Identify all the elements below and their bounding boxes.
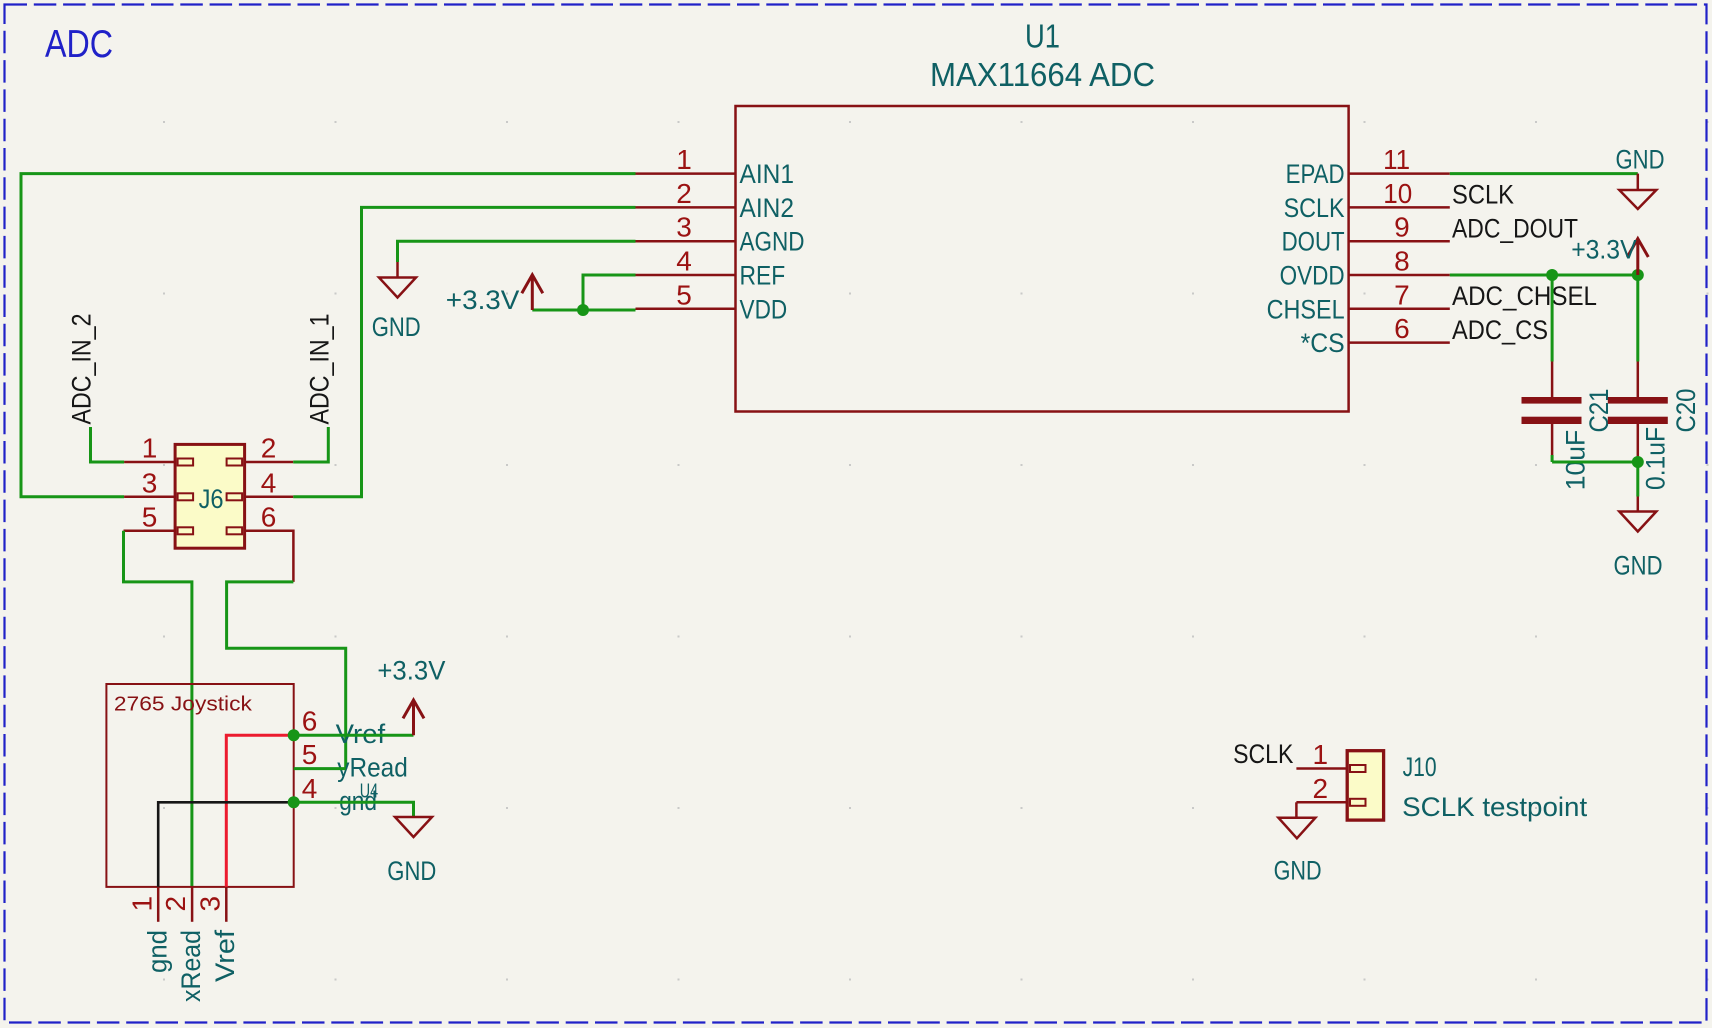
U1 pin 10 stub [1349, 206, 1450, 209]
wire net ADC_IN_2 : AIN1 to J6 pin 3 [21, 174, 636, 497]
svg-text:5: 5 [142, 501, 158, 532]
joystick pin 1 stub (bottom) [157, 887, 160, 922]
J6 pin 5 stub [124, 530, 176, 533]
svg-text:1: 1 [142, 433, 158, 464]
svg-text:10uF: 10uF [1561, 430, 1591, 491]
J6 pin 2 notch [227, 459, 243, 466]
svg-text:10: 10 [1383, 178, 1412, 209]
ground symbol at joystick [395, 817, 432, 837]
svg-text:MAX11664 ADC: MAX11664 ADC [930, 56, 1155, 93]
J6 pin 4 notch [227, 493, 243, 500]
J10 pin 2 notch [1350, 799, 1366, 806]
svg-text:+3.3V: +3.3V [377, 656, 445, 686]
wire gnd (black) joystick pin4 to pin1 [158, 802, 294, 887]
svg-text:U1: U1 [1025, 18, 1060, 55]
svg-text:Vref: Vref [210, 929, 240, 982]
svg-text:SCLK: SCLK [1233, 739, 1293, 769]
connector J6 body [175, 444, 245, 548]
svg-text:GND: GND [387, 856, 436, 886]
svg-text:J10: J10 [1403, 752, 1437, 782]
op-amp/IC U1 MAX11664 ADC body [736, 106, 1349, 412]
svg-text:ADC: ADC [45, 23, 113, 66]
svg-text:yRead: yRead [337, 752, 408, 782]
wire OVDD to +3.3V and capacitors [1450, 274, 1638, 277]
svg-text:2: 2 [160, 896, 191, 912]
U1 pin 11 stub [1349, 172, 1450, 175]
svg-text:C21: C21 [1584, 389, 1614, 433]
svg-text:AGND: AGND [740, 227, 805, 257]
svg-text:ADC_IN_1: ADC_IN_1 [304, 314, 334, 425]
svg-text:3: 3 [676, 212, 692, 243]
svg-text:SCLK testpoint: SCLK testpoint [1402, 792, 1588, 822]
ground symbol below C20 [1619, 497, 1656, 532]
U1 pin 9 stub [1349, 240, 1450, 243]
wire joystick pin4 to ground [294, 802, 414, 817]
J6 pin 1 stub [124, 461, 175, 464]
svg-text:EPAD: EPAD [1286, 159, 1345, 189]
power symbol +3.3V at joystick [403, 700, 424, 735]
J6 pin 6 stub and dark segment [245, 531, 294, 582]
J6 pin 5 notch [178, 527, 194, 534]
U1 pin 1 stub [636, 172, 736, 175]
wire C21 bottom to C20 bottom [1552, 462, 1638, 497]
ground symbol at EPAD [1619, 174, 1656, 209]
svg-text:C20: C20 [1671, 389, 1701, 433]
svg-text:0.1uF: 0.1uF [1641, 427, 1671, 490]
J6 pin 6 notch [227, 527, 243, 534]
svg-text:3: 3 [195, 896, 226, 912]
wire J6 pin2 to ADC_IN_1 label [293, 427, 328, 462]
svg-text:2: 2 [1313, 773, 1329, 804]
joystick U4 body (2765 Joystick) [106, 684, 293, 887]
joystick pin 2 stub (bottom) [191, 887, 194, 922]
svg-text:2: 2 [676, 178, 692, 209]
svg-text:xRead: xRead [176, 930, 206, 1002]
svg-text:5: 5 [676, 279, 692, 310]
svg-text:1: 1 [676, 144, 692, 175]
connector J10 body [1347, 751, 1383, 820]
svg-text:ADC_DOUT: ADC_DOUT [1452, 213, 1578, 243]
ground symbol at AGND [379, 262, 416, 298]
svg-text:OVDD: OVDD [1280, 261, 1345, 291]
J10 pin 1 stub [1296, 767, 1347, 770]
U1 pin 4 stub [636, 274, 736, 277]
junction joystick pin6 [288, 729, 300, 741]
wire Vref (red) joystick pin6 to pin3 [226, 735, 293, 887]
J6 pin 3 stub [124, 496, 175, 499]
junction capacitors/ground [1632, 456, 1644, 468]
svg-text:2: 2 [261, 433, 277, 464]
wire AGND to ground [398, 241, 636, 262]
J6 pin 2 stub [245, 461, 294, 464]
svg-text:ADC_IN_2: ADC_IN_2 [67, 314, 97, 425]
svg-text:+3.3V: +3.3V [1571, 235, 1636, 265]
joystick pin 3 stub (bottom) [225, 887, 228, 922]
svg-text:1: 1 [1313, 739, 1329, 770]
J6 pin 3 notch [178, 493, 194, 500]
svg-text:3: 3 [142, 467, 158, 498]
svg-text:REF: REF [740, 261, 786, 291]
wire J6 pin5 to joystick xRead pin [124, 531, 192, 887]
junction REF/VDD +3.3V [577, 304, 589, 316]
svg-text:SCLK: SCLK [1452, 180, 1514, 210]
svg-text:4: 4 [261, 467, 277, 498]
U1 pin 3 stub [636, 240, 736, 243]
svg-text:ADC_CS: ADC_CS [1452, 315, 1548, 345]
capacitor C21 10uF [1522, 275, 1582, 462]
svg-text:+3.3V: +3.3V [446, 285, 520, 315]
svg-text:GND: GND [1614, 550, 1663, 580]
svg-text:1: 1 [127, 896, 158, 912]
junction joystick pin4 [288, 796, 300, 808]
wire VDD to +3.3V [532, 309, 635, 312]
svg-text:5: 5 [302, 739, 318, 770]
J6 pin 1 notch [178, 459, 194, 466]
svg-text:4: 4 [302, 773, 318, 804]
svg-text:gnd: gnd [142, 930, 172, 973]
wire joystick pin5 yRead stub [294, 767, 346, 770]
svg-text:CHSEL: CHSEL [1267, 294, 1345, 324]
wire net ADC_IN_1 : AIN2 to J6 pin 4 [293, 207, 635, 496]
wire J6 pin6 to joystick yRead pin [227, 582, 346, 769]
wire REF to +3.3V node [583, 275, 636, 310]
power symbol +3.3V at VDD [522, 275, 543, 310]
J6 pin 4 stub [245, 496, 294, 499]
U1 pin 8 stub [1349, 274, 1450, 277]
wire EPAD to ground [1450, 172, 1638, 175]
U1 pin 7 stub [1349, 308, 1450, 311]
svg-text:7: 7 [1394, 279, 1410, 310]
svg-text:ADC_CHSEL: ADC_CHSEL [1452, 281, 1597, 311]
U1 pin 5 stub [636, 308, 736, 311]
svg-text:6: 6 [261, 501, 277, 532]
svg-text:GND: GND [372, 312, 421, 342]
svg-text:J6: J6 [199, 484, 224, 514]
svg-text:VDD: VDD [740, 294, 788, 324]
svg-text:6: 6 [1394, 313, 1410, 344]
svg-text:AIN2: AIN2 [740, 193, 795, 223]
wire joystick pin6 to +3.3V [294, 734, 414, 737]
J10 pin 2 stub [1296, 801, 1347, 804]
junction OVDD/C21 [1546, 269, 1558, 281]
U1 pin 2 stub [636, 206, 736, 209]
svg-text:9: 9 [1394, 212, 1410, 243]
svg-text:*CS: *CS [1301, 328, 1345, 358]
svg-text:GND: GND [1274, 856, 1322, 886]
svg-text:11: 11 [1383, 144, 1410, 175]
svg-text:DOUT: DOUT [1282, 227, 1345, 257]
J10 pin 1 notch [1350, 765, 1366, 772]
svg-text:8: 8 [1394, 246, 1410, 277]
capacitor C20 0.1uF [1608, 275, 1668, 462]
junction OVDD/+3.3V/C20 [1632, 269, 1644, 281]
U1 pin 6 stub [1349, 341, 1450, 344]
svg-text:SCLK: SCLK [1284, 193, 1345, 223]
power symbol +3.3V at OVDD [1627, 239, 1648, 275]
svg-text:AIN1: AIN1 [740, 159, 795, 189]
svg-text:2765 Joystick: 2765 Joystick [114, 693, 253, 715]
svg-text:4: 4 [676, 246, 692, 277]
wire J6 pin1 to ADC_IN_2 label [91, 427, 125, 462]
svg-text:6: 6 [302, 706, 318, 737]
svg-text:GND: GND [1616, 145, 1665, 175]
ground symbol at J10 pin 2 [1278, 802, 1315, 838]
